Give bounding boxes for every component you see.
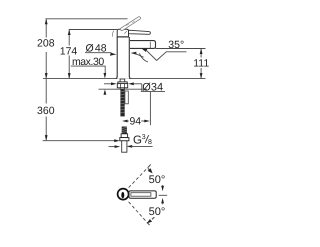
Ø34 arrows (104, 83, 111, 85)
top view lever (129, 191, 156, 198)
G3/8 arrows (109, 146, 115, 148)
lever angle arrows (162, 185, 164, 187)
dimension 360 (45, 79, 47, 140)
dimension 111 (200, 49, 202, 78)
G3/8 stud: hose end (122, 141, 127, 152)
rod side bracket (125, 91, 128, 104)
svg-text:50°: 50° (149, 174, 166, 186)
dimension 208 (45, 19, 47, 78)
svg-text:3: 3 (142, 134, 146, 141)
raised lever (open position) (120, 16, 141, 31)
counter top line (43, 78, 206, 80)
washer (118, 82, 127, 84)
360 bottom reference line (43, 140, 115, 142)
174 reference line (69, 29, 117, 31)
upper swing dashed line (129, 165, 150, 187)
pivot dot (121, 192, 124, 198)
111 reference line (156, 48, 206, 50)
svg-text:208: 208 (37, 38, 55, 50)
svg-text:50°: 50° (149, 206, 166, 218)
Ø48 right arrow (131, 52, 137, 55)
svg-text:360: 360 (37, 105, 55, 117)
svg-text:G: G (133, 135, 142, 147)
35° angle arc (139, 53, 148, 62)
top view circle (faucet body from above) (118, 189, 129, 200)
faucet base flare (116, 77, 117, 79)
lever swing arc (112, 31, 113, 37)
aerator 35° leader: arrow at outlet (141, 49, 147, 52)
cartridge cap (117, 29, 128, 37)
lower swing arrow (147, 223, 149, 226)
upper swing arrow (148, 164, 151, 167)
svg-text:94: 94 (129, 115, 141, 127)
svg-text:8: 8 (148, 139, 152, 146)
G3/8 stud: nut (120, 138, 129, 141)
spout (130, 41, 156, 49)
faucet body (117, 37, 129, 79)
lower swing dashed line (129, 202, 149, 225)
mounting nut (117, 84, 127, 88)
dimension 174 (68, 30, 70, 78)
G3/8 stud: collar (121, 134, 128, 138)
threaded rod (120, 89, 124, 116)
counter bottom line (99, 88, 120, 90)
aerator inner line (149, 42, 151, 48)
svg-text:35°: 35° (168, 39, 184, 51)
G3/8 stud: thread (122, 127, 127, 134)
mounting shank (120, 79, 125, 89)
cap joint tick (124, 31, 127, 33)
top reference line (46, 18, 128, 20)
horizontal lever (closed position) (129, 30, 151, 34)
94 extension line (149, 92, 151, 125)
dimension 94 (122, 120, 128, 123)
svg-text:111: 111 (193, 58, 209, 70)
